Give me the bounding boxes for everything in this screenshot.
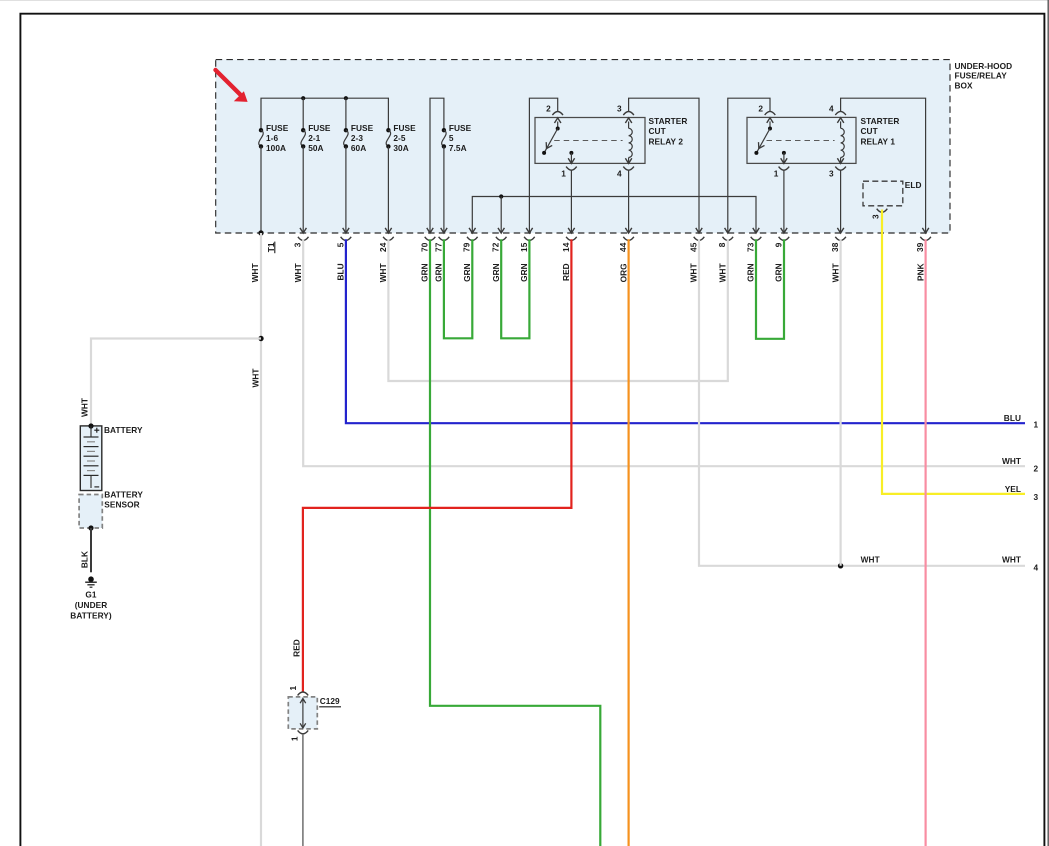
svg-text:UNDER-HOOD: UNDER-HOOD <box>955 61 1013 71</box>
connector pin 15 exit <box>526 228 532 233</box>
svg-text:GRN: GRN <box>434 263 444 282</box>
wire bus to fuse 2-3 <box>345 98 347 130</box>
wire C129 down <box>302 735 304 846</box>
fuse FUSE 2-3 60A labels <box>351 123 374 153</box>
svg-text:FUSE: FUSE <box>351 123 374 133</box>
junction pin 38 on edge-4 wire <box>838 563 843 568</box>
wire WHT terminal T1 down <box>260 233 262 846</box>
svg-text:RED: RED <box>561 263 571 281</box>
svg-text:4: 4 <box>1033 563 1038 573</box>
svg-text:3: 3 <box>293 242 303 247</box>
starter cut relay 2 switch common dot <box>556 127 560 131</box>
svg-text:3: 3 <box>617 103 622 113</box>
fuse FUSE 2-3 60A symbol <box>344 128 349 149</box>
wire pin 70 riser and bridge <box>430 98 444 233</box>
svg-text:5: 5 <box>449 133 454 143</box>
svg-text:1: 1 <box>290 736 300 741</box>
svg-text:CUT: CUT <box>649 126 666 136</box>
fuse FUSE 2-5 30A symbol <box>386 128 391 149</box>
rail junction at pin 72 <box>499 194 503 198</box>
wire WHT battery feed <box>91 339 261 426</box>
starter cut relay 2 actuation dashed link <box>554 140 622 142</box>
svg-text:YEL: YEL <box>1005 484 1021 494</box>
connector pin 14 exit <box>568 228 574 233</box>
svg-text:FUSE: FUSE <box>449 123 472 133</box>
starter cut relay 1 switch common dot <box>768 127 772 131</box>
starter cut relay 2 pin 1 contact <box>566 151 577 170</box>
fuse FUSE 2-1 50A labels <box>308 123 331 153</box>
svg-text:GRN: GRN <box>746 263 756 282</box>
fuse FUSE 2-5 30A labels <box>393 123 416 153</box>
wire PNK pin 39 down <box>924 239 926 846</box>
svg-text:30A: 30A <box>393 143 408 153</box>
label starter cut relay 1 <box>861 116 900 147</box>
starter cut relay 2 coil <box>629 128 633 157</box>
battery sensor box <box>79 495 102 529</box>
wire fuse 2-1 down to pin 3 <box>302 146 304 233</box>
svg-text:SENSOR: SENSOR <box>104 499 139 509</box>
svg-text:PNK: PNK <box>915 263 925 281</box>
connector C129 through arrows <box>300 699 306 729</box>
svg-text:1-6: 1-6 <box>266 133 278 143</box>
wire RED pin 14 to C129 <box>303 239 572 692</box>
svg-text:FUSE: FUSE <box>266 123 289 133</box>
svg-text:4: 4 <box>617 168 622 178</box>
connector pin 72 exit <box>498 228 504 233</box>
right edge rule <box>1047 0 1049 846</box>
wire relay 2 pin 4 to pin 44 <box>628 170 630 233</box>
label starter cut relay 2 <box>649 116 688 147</box>
svg-text:BLU: BLU <box>1004 413 1021 423</box>
starter cut relay 1 pin 1 contact <box>779 151 790 170</box>
fuse supply bus wire <box>261 98 388 130</box>
connector pin 38 exit <box>837 228 843 233</box>
starter cut relay 2 coil top entry pin 3 <box>623 112 634 129</box>
wire rail to pin 72 <box>500 197 502 234</box>
battery cell plates <box>84 426 100 488</box>
connector C129 top bracket <box>298 692 309 695</box>
svg-text:14: 14 <box>561 242 571 252</box>
svg-text:3: 3 <box>829 168 834 178</box>
svg-text:C129: C129 <box>320 696 340 706</box>
wire fuse 2-3 down to pin 5 <box>345 146 347 233</box>
svg-text:GRN: GRN <box>491 263 501 282</box>
wire GRN pin 70 down-left-down <box>430 239 600 846</box>
bus junction at fuse 2-1 <box>301 96 305 100</box>
svg-text:1: 1 <box>561 168 566 178</box>
connector pin 3 exit <box>300 228 306 233</box>
wire bus to fuse 2-1 <box>302 98 304 130</box>
svg-text:CUT: CUT <box>861 126 878 136</box>
svg-text:RELAY 2: RELAY 2 <box>649 137 684 147</box>
red callout arrow <box>216 70 248 102</box>
svg-text:2: 2 <box>758 103 763 113</box>
svg-text:STARTER: STARTER <box>649 116 688 126</box>
svg-text:73: 73 <box>745 242 755 252</box>
svg-text:79: 79 <box>462 242 472 252</box>
starter cut relay 1 body <box>747 117 856 163</box>
svg-text:50A: 50A <box>308 143 323 153</box>
battery body <box>80 426 102 491</box>
fuse FUSE 2-1 50A symbol <box>301 128 306 149</box>
battery plus sign <box>94 428 99 433</box>
svg-text:(UNDER: (UNDER <box>75 600 108 610</box>
connector C129 bottom bracket <box>298 730 309 733</box>
junction battery feed <box>258 336 263 341</box>
fuse FUSE 5 7.5A labels <box>449 123 472 153</box>
svg-text:WHT: WHT <box>861 554 880 564</box>
svg-text:WHT: WHT <box>293 263 303 282</box>
svg-text:GRN: GRN <box>774 263 784 282</box>
starter cut relay 2 pin 2 entry <box>552 112 563 129</box>
connector pin 77 exit <box>441 228 447 233</box>
wire relay 2 pin 1 to pin 14 <box>570 170 572 233</box>
starter cut relay 1 coil <box>841 128 845 157</box>
connector pin 70 exit <box>427 228 433 233</box>
svg-text:2-1: 2-1 <box>308 133 320 143</box>
svg-text:7.5A: 7.5A <box>449 143 467 153</box>
wire YEL ELD to edge 3 <box>882 210 1025 494</box>
svg-text:GRN: GRN <box>519 263 529 282</box>
svg-text:77: 77 <box>433 242 443 252</box>
svg-text:STARTER: STARTER <box>861 116 900 126</box>
wire GRN pin 77 to pin 79 <box>444 239 472 338</box>
svg-text:WHT: WHT <box>250 368 260 387</box>
wire relay 1 pin 1 to pin 9 <box>783 170 785 233</box>
terminal T1 junction dot <box>258 230 263 235</box>
wire relay 1 pin 2 to pin 8 <box>728 98 770 233</box>
label UNDER-HOOD FUSE/RELAY BOX <box>955 61 1013 90</box>
ELD box <box>863 181 903 206</box>
svg-text:WHT: WHT <box>250 263 260 282</box>
wire relay 2 pin 2 to pin 15 <box>529 98 557 233</box>
starter cut relay 1 coil top entry pin 4 <box>835 111 846 128</box>
svg-text:1: 1 <box>774 168 779 178</box>
label T1 <box>266 242 276 254</box>
svg-text:FUSE: FUSE <box>393 123 416 133</box>
svg-text:45: 45 <box>688 242 698 252</box>
svg-text:GRN: GRN <box>420 263 430 282</box>
label G1 (UNDER BATTERY) <box>70 589 112 620</box>
svg-text:24: 24 <box>378 242 388 252</box>
wire WHT pin 45 to edge 4 <box>699 239 1025 566</box>
svg-text:39: 39 <box>915 242 925 252</box>
starter cut relay 1 coil bottom pin 3 <box>835 158 846 171</box>
svg-text:FUSE: FUSE <box>308 123 331 133</box>
bus junction at fuse 2-3 <box>344 96 348 100</box>
fuse FUSE 5 7.5A symbol <box>442 128 447 149</box>
fuse FUSE 1-6 100A labels <box>266 123 289 153</box>
wire fuse 2-5 down to pin 24 <box>387 146 389 233</box>
connector pin 5 exit <box>343 228 349 233</box>
label BATTERY SENSOR <box>104 490 143 510</box>
internal rail pins 79 to 73 <box>472 197 756 234</box>
starter cut relay 1 actuation dashed link <box>767 140 835 142</box>
wire fuse 1-6 to terminal T1 <box>260 146 262 233</box>
svg-text:BLU: BLU <box>336 263 346 280</box>
wire ORG pin 44 down <box>627 239 629 846</box>
wire WHT pin 38 down <box>839 239 841 566</box>
starter cut relay 2 body <box>535 118 645 164</box>
svg-text:G1: G1 <box>85 589 97 599</box>
svg-text:BLK: BLK <box>80 551 90 568</box>
connector pin 45 exit <box>696 228 702 233</box>
starter cut relay 2 coil bottom pin 4 <box>623 158 634 171</box>
connector pin 44 exit <box>625 228 631 233</box>
wire WHT pin 3 to edge 2 <box>303 239 1025 466</box>
svg-text:BOX: BOX <box>955 80 974 90</box>
under-hood fuse/relay box outline <box>216 60 950 233</box>
svg-text:2: 2 <box>1033 463 1038 473</box>
connector pin 9 exit <box>781 228 787 233</box>
svg-text:44: 44 <box>618 242 628 252</box>
svg-text:3: 3 <box>871 214 881 219</box>
starter cut relay 1 switch blade <box>754 129 770 155</box>
svg-text:GRN: GRN <box>462 263 472 282</box>
svg-text:BATTERY): BATTERY) <box>70 610 112 620</box>
svg-text:70: 70 <box>419 242 429 252</box>
svg-text:100A: 100A <box>266 143 286 153</box>
battery positive terminal dot <box>88 423 93 428</box>
wire fuse 5 down to pin 77 <box>443 146 445 233</box>
svg-text:WHT: WHT <box>689 263 699 282</box>
svg-text:WHT: WHT <box>378 263 388 282</box>
wire BLK battery sensor to ground <box>90 528 92 572</box>
starter cut relay 1 pin 2 entry <box>765 111 776 128</box>
svg-text:WHT: WHT <box>1002 456 1021 466</box>
page top hairline <box>0 0 1049 2</box>
wire WHT pin 24 to pin 8 <box>388 239 727 381</box>
svg-text:ELD: ELD <box>905 180 922 190</box>
svg-text:72: 72 <box>491 242 501 252</box>
svg-text:WHT: WHT <box>1002 554 1021 564</box>
battery sensor output dot <box>88 525 93 530</box>
svg-text:1: 1 <box>288 686 298 691</box>
connector pin 8 exit <box>725 228 731 233</box>
svg-text:RELAY 1: RELAY 1 <box>861 137 896 147</box>
wire GRN pin 73 to pin 9 <box>756 239 784 338</box>
svg-text:38: 38 <box>830 242 840 252</box>
connector pin 39 exit <box>922 228 928 233</box>
svg-text:60A: 60A <box>351 143 366 153</box>
svg-text:2-3: 2-3 <box>351 133 363 143</box>
fuse FUSE 1-6 100A symbol <box>259 128 264 149</box>
svg-text:5: 5 <box>335 242 345 247</box>
starter cut relay 2 switch blade <box>542 129 558 155</box>
svg-text:8: 8 <box>717 242 727 247</box>
wire relay 2 pin 3 to pin 45 <box>629 98 699 233</box>
connector C129 body <box>288 697 317 729</box>
connector pin 73 exit <box>753 228 759 233</box>
svg-text:BATTERY: BATTERY <box>104 490 143 500</box>
svg-text:15: 15 <box>519 242 529 252</box>
wire GRN pin 72 to pin 15 <box>501 239 529 338</box>
connector pin 24 exit <box>385 228 391 233</box>
ELD pin 3 connector <box>877 209 888 213</box>
wire relay 1 pin 4 to pin 39 <box>841 98 926 233</box>
svg-text:WHT: WHT <box>830 263 840 282</box>
svg-text:3: 3 <box>1033 492 1038 502</box>
svg-text:FUSE/RELAY: FUSE/RELAY <box>955 71 1008 81</box>
label C129 <box>319 696 341 707</box>
svg-text:RED: RED <box>291 639 301 657</box>
svg-text:2: 2 <box>546 103 551 113</box>
wire relay 1 pin 3 to pin 38 <box>840 170 842 233</box>
svg-text:WHT: WHT <box>80 398 90 417</box>
svg-text:BATTERY: BATTERY <box>104 425 143 435</box>
connector pin 79 exit <box>469 228 475 233</box>
svg-text:2-5: 2-5 <box>393 133 405 143</box>
svg-text:ORG: ORG <box>618 263 628 282</box>
svg-text:WHT: WHT <box>718 263 728 282</box>
svg-text:4: 4 <box>829 103 834 113</box>
svg-text:9: 9 <box>773 242 783 247</box>
ground G1 symbol <box>85 576 97 587</box>
wire BLU pin 5 to edge 1 <box>346 239 1025 423</box>
svg-text:1: 1 <box>1033 419 1038 429</box>
